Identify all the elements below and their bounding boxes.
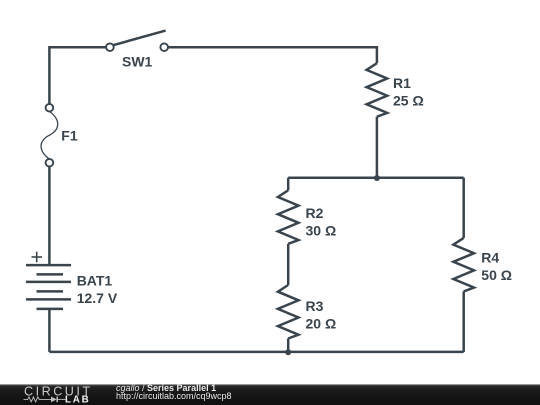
resistor R3 zigzag: [278, 285, 299, 339]
svg-text:R4: R4: [481, 250, 499, 266]
resistor R2 zigzag: [278, 190, 299, 244]
svg-text:12.7 V: 12.7 V: [77, 290, 118, 306]
wire middle rail: [288, 176, 464, 179]
wire: R1 bottom lead to middle-rail junction: [376, 117, 379, 178]
fuse F1 top terminal circle: [46, 104, 54, 112]
svg-text:LAB: LAB: [65, 395, 91, 405]
junction node at R3 / bottom rail: [285, 349, 291, 355]
resistor R4 zigzag: [453, 238, 474, 292]
fuse F1 element curve: [41, 111, 58, 159]
wire: switch right terminal to top-right corner down to R1 top: [168, 47, 377, 63]
wire: R4 top lead from middle rail corner: [462, 178, 465, 238]
svg-text:50 Ω: 50 Ω: [481, 267, 512, 283]
svg-text:20 Ω: 20 Ω: [306, 316, 337, 332]
svg-text:R2: R2: [306, 205, 324, 221]
wire: R4 bottom lead to bottom rail: [462, 291, 465, 352]
CircuitLab logo diode symbol: [51, 397, 57, 403]
svg-text:F1: F1: [61, 128, 78, 144]
CircuitLab logo zigzag wire: [24, 397, 52, 402]
wire: R2 top lead from middle rail: [287, 178, 290, 191]
wire: battery bottom plate to bottom rail: [48, 309, 51, 352]
svg-text:R3: R3: [306, 298, 324, 314]
switch SW1 blade: [113, 31, 166, 46]
svg-text:SW1: SW1: [122, 54, 153, 70]
wire: R3 bottom lead to bottom rail: [287, 339, 290, 352]
svg-text:25 Ω: 25 Ω: [393, 93, 424, 109]
battery BAT1 plates: [26, 265, 71, 309]
footer bar: [0, 384, 540, 405]
wire: between R2 and R3: [287, 244, 290, 285]
svg-text:R1: R1: [393, 75, 411, 91]
wire: fuse bottom to battery top plate: [48, 166, 51, 265]
junction node at R1 / middle rail: [374, 175, 380, 181]
battery plus sign: [32, 252, 43, 263]
footer line 1: author / title: [116, 383, 216, 393]
wire bottom rail: [49, 351, 463, 354]
wire top-left: left rail top to switch left terminal: [49, 47, 106, 104]
switch SW1 left terminal circle: [106, 43, 114, 51]
svg-text:30 Ω: 30 Ω: [306, 223, 337, 239]
svg-text:BAT1: BAT1: [77, 273, 113, 289]
switch SW1 right terminal circle: [160, 43, 168, 51]
resistor R1 zigzag: [367, 63, 388, 116]
footer line 2: url: [116, 391, 232, 401]
fuse F1 bottom terminal circle: [46, 159, 54, 167]
